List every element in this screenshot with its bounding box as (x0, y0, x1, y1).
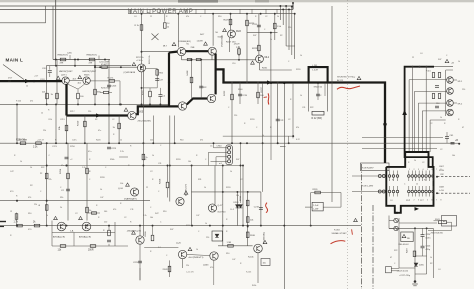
wire fan drop 3 (414, 91, 416, 152)
wire q204 emitter down (141, 72, 143, 105)
svg-text:R 220: R 220 (16, 101, 21, 103)
wire x247.7 down (247, 192, 249, 246)
svg-text:C47: C47 (196, 215, 199, 217)
transistor Q229 (136, 236, 144, 244)
resistor R201 (60, 58, 66, 61)
dash-dot boundary x373 (372, 205, 374, 289)
svg-text:C2: C2 (124, 217, 126, 219)
svg-text:220: 220 (234, 115, 237, 117)
wire x232 down (231, 82, 233, 143)
svg-text:1k: 1k (204, 187, 206, 189)
svg-text:W02X: W02X (84, 74, 90, 76)
P-08 label box (361, 163, 390, 171)
svg-text:C4: C4 (420, 53, 422, 55)
A marker q201 (56, 76, 60, 79)
svg-text:47k: 47k (296, 127, 299, 129)
svg-text:+R229: +R229 (234, 44, 241, 46)
resistor R239 (315, 191, 321, 194)
transistor Q213 (208, 47, 216, 55)
svg-text:m1: m1 (219, 163, 222, 165)
dotted boundary x347.4 (346, 0, 348, 289)
emitter resistor RE1 (187, 59, 192, 61)
wire y207.1 into cap box (305, 206, 312, 208)
svg-text:R-CH: R-CH (439, 170, 445, 172)
A marker q225 (54, 216, 58, 219)
crossover X mark (152, 34, 159, 41)
svg-text:2SA992(A/Y): 2SA992(A/Y) (124, 198, 137, 201)
transistor Q203 (83, 77, 90, 84)
resistor R252 (36, 142, 42, 145)
svg-text:47k: 47k (30, 101, 33, 103)
svg-text:Q-17: Q-17 (218, 205, 224, 207)
wire fan x286.1 (285, 6, 287, 46)
resistor R211 top (140, 25, 143, 31)
svg-text:2k: 2k (60, 207, 62, 209)
wire x243 down (242, 166, 244, 226)
wire x422.5 to x426.6 (422, 252, 424, 256)
svg-text:47k: 47k (49, 179, 52, 181)
wire x341 link (340, 193, 342, 208)
transistor Q227 (82, 222, 91, 231)
red mark service note A (267, 93, 270, 104)
svg-text:22: 22 (150, 16, 152, 18)
svg-text:R215 8.2k: R215 8.2k (101, 87, 110, 89)
svg-text:R47: R47 (236, 159, 239, 161)
svg-text:R220: R220 (250, 119, 255, 121)
dashed wire R out (437, 176, 470, 178)
svg-text:C211: C211 (252, 24, 258, 26)
svg-text:220: 220 (88, 111, 91, 113)
red underline signal gnd (331, 241, 346, 244)
bus loop bottom right (386, 267, 392, 273)
wire relay feeds (388, 216, 390, 229)
svg-text:1k: 1k (100, 189, 102, 191)
wire q204 base feed (95, 66, 138, 68)
svg-text:HM22K(T): HM22K(T) (87, 55, 97, 57)
svg-text:47: 47 (390, 257, 392, 259)
svg-text:#R243 22: #R243 22 (314, 86, 324, 88)
A marker gnd note (354, 218, 358, 221)
svg-text:4707: 4707 (8, 78, 12, 80)
transistor Q223 mid (208, 204, 216, 212)
nodes y65.7 (55, 65, 57, 67)
wire x262.6 down (262, 83, 264, 192)
wire to box (434, 220, 442, 222)
resistor R222 loop (190, 77, 193, 83)
svg-text:10k: 10k (120, 183, 123, 185)
wire rail y137 right seg (362, 136, 443, 138)
resistor R266 (90, 245, 96, 248)
wire long vertical A (52, 6, 54, 60)
svg-text:HM22K(T): HM22K(T) (58, 55, 68, 57)
svg-text:2SA992(A/2): 2SA992(A/2) (221, 35, 224, 47)
svg-text:C31: C31 (302, 107, 305, 109)
wire rail y136 seg (223, 135, 293, 137)
wire x399-415 bottom link (399, 267, 415, 269)
transistor Q211 driver (207, 94, 215, 102)
capacitor C217 (276, 119, 280, 121)
svg-text:22k: 22k (186, 265, 189, 267)
svg-text:R-10k: R-10k (248, 257, 255, 259)
svg-text:2SC2240(B1): 2SC2240(B1) (264, 232, 266, 244)
wire q231 emitter (182, 259, 184, 268)
zener D205 (414, 263, 418, 266)
svg-text:R236: R236 (240, 195, 242, 201)
connector P-08 outline thick (386, 152, 433, 213)
transistor Q205 (128, 111, 136, 119)
wire fan x280.4 (279, 6, 281, 20)
wire q231-q233 (187, 255, 210, 256)
svg-text:10k: 10k (150, 217, 153, 219)
svg-text:47: 47 (462, 127, 464, 129)
stub resistor x16.5 (16, 213, 18, 226)
svg-text:200R: 200R (88, 250, 94, 252)
resistor R212 (65, 125, 68, 131)
wire x229.6 lower (229, 38, 231, 52)
capacitor C61 (445, 137, 449, 139)
svg-text:C219: C219 (254, 207, 260, 209)
svg-text:C223: C223 (111, 148, 117, 150)
svg-text:MAIN L POWER AMP: MAIN L POWER AMP (128, 9, 194, 15)
wire fan x283.2 (282, 9, 284, 25)
svg-text:R56k: R56k (110, 159, 114, 161)
wire x213.5 drop (213, 143, 215, 148)
svg-text:ML2: ML2 (265, 57, 270, 59)
svg-text:REL-M-GU: REL-M-GU (399, 244, 409, 246)
diode in box (215, 234, 219, 237)
pin row 1 (388, 175, 391, 178)
wire sp stubs (453, 79, 457, 81)
driver loop vertical 2 (200, 60, 202, 99)
svg-text:R219 10k: R219 10k (149, 55, 151, 64)
svg-text:Q-16: Q-16 (118, 188, 124, 190)
resistor R208 tail (77, 93, 80, 99)
svg-text:1.4498: 1.4498 (197, 41, 204, 43)
svg-text:R1k: R1k (49, 119, 52, 121)
svg-text:1k: 1k (416, 184, 418, 186)
output transistor Q239 (447, 88, 454, 95)
svg-text:1k: 1k (277, 16, 279, 18)
svg-text:R160: R160 (238, 89, 243, 91)
svg-text:C217: C217 (280, 120, 286, 122)
svg-text:220: 220 (288, 27, 291, 29)
A marker q205 (124, 108, 128, 111)
emitter join Y (68, 84, 79, 89)
svg-text:47R: 47R (60, 63, 64, 65)
wire leader from MAIN L label (3, 65, 24, 80)
wire x164.8 stub (164, 14, 166, 22)
svg-text:C203: C203 (111, 86, 117, 88)
wire base link to ML2 (216, 59, 256, 61)
svg-text:R22: R22 (394, 250, 397, 252)
wire x274.8 (274, 14, 276, 40)
wire q235 base (248, 246, 254, 248)
svg-text:C4: C4 (390, 200, 392, 202)
resistor R223 (246, 20, 249, 26)
svg-text:P-LE2: P-LE2 (334, 230, 341, 232)
capacitor C235 cluster (435, 106, 439, 108)
resistor R238 (246, 217, 249, 223)
relay plug contact 2 (394, 226, 398, 230)
svg-text:1k: 1k (120, 140, 122, 142)
wire rail y165.5 (0, 165, 243, 167)
wire x87 down (86, 143, 88, 220)
wire b+ rail thin ext (434, 66, 453, 68)
stub c205 (69, 55, 71, 60)
svg-text:R-106: R-106 (246, 272, 251, 274)
wire vertical x66.5 lower (66, 116, 68, 144)
wire fan drop 1 (408, 80, 410, 152)
svg-text:+ROUT-W-GU: +ROUT-W-GU (430, 232, 443, 234)
svg-text:10k: 10k (263, 263, 266, 265)
svg-text:R254: R254 (60, 168, 62, 174)
svg-text:052 R04: 052 R04 (218, 212, 227, 214)
wire x143.4 down (142, 66, 144, 236)
wire q204 collector up (141, 14, 143, 64)
svg-text:A950A(Q-/E): A950A(Q-/E) (79, 236, 91, 239)
wire x178.3 drop to Q207 (177, 14, 179, 48)
capacitor C230 col (65, 157, 69, 159)
capacitor C221 box (312, 202, 323, 211)
svg-text:1k: 1k (414, 160, 416, 162)
wire thick Q205 to Q209 riser (136, 106, 178, 114)
arrow on block bottom (415, 207, 420, 211)
wire vertical x57 (56, 60, 58, 105)
resistor R206 (46, 93, 49, 99)
wire x110 bottom hook (108, 143, 110, 150)
svg-text:R 4.7k: R 4.7k (108, 77, 114, 79)
resistor R205 (56, 93, 59, 99)
svg-text:2.2k: 2.2k (120, 151, 124, 153)
resistor R240 (246, 232, 249, 238)
capacitor C209 loop (155, 79, 159, 81)
svg-text:1k: 1k (270, 39, 272, 41)
relay plug contact 1 (394, 218, 398, 222)
svg-text:22: 22 (146, 187, 148, 189)
capacitor C208 (158, 95, 162, 97)
A marker q219 (126, 183, 130, 186)
transistor Q235 (254, 244, 263, 253)
wire thick staircase to output line (216, 69, 385, 163)
A marker q204 (132, 62, 136, 65)
wire thick B+ feed from P-08 (405, 67, 434, 167)
wire x46.7 x17 joints (16, 103, 18, 105)
A marker q217 (251, 61, 255, 64)
svg-text:R217: R217 (70, 111, 75, 113)
wire input top rail (53, 59, 110, 61)
svg-text:22: 22 (412, 57, 414, 59)
wire q233 down (213, 260, 215, 285)
svg-text:47u: 47u (88, 151, 91, 153)
wire thick input path MAIN L (0, 80, 62, 82)
wire cn10 leads (214, 147, 228, 149)
wire x229.6 upper (230, 14, 232, 30)
wire x120 down (119, 81, 121, 105)
svg-text:L-DW: L-DW (313, 209, 318, 211)
output transistor Q243 (447, 109, 454, 116)
wire x46.7 down (46, 143, 48, 225)
resistor R269 col (108, 230, 111, 236)
resistor R215 (149, 91, 152, 97)
wire pair emitter drop (73, 233, 75, 247)
label +B top (445, 59, 449, 62)
resistor R233t (274, 23, 277, 29)
capacitor C223 mid (107, 147, 111, 149)
wire x174.7 (174, 116, 176, 144)
svg-text:R10: R10 (436, 103, 439, 105)
wire x277.7 down (277, 82, 279, 143)
svg-text:SIGNAL GT NET: SIGNAL GT NET (332, 232, 348, 235)
capacitor C212 loop (199, 86, 203, 88)
wire q203 base right (90, 80, 120, 82)
svg-text:0.22: 0.22 (296, 139, 300, 141)
svg-text:R225: R225 (224, 20, 230, 22)
svg-text:1k: 1k (430, 257, 432, 259)
wire y228.3 (389, 227, 433, 229)
wire emitter loop (142, 87, 158, 89)
svg-text:C47u: C47u (72, 140, 77, 142)
svg-text:22: 22 (420, 200, 422, 202)
svg-text:HM22K(T)/FET: HM22K(T)/FET (83, 71, 97, 73)
svg-text:1k50B: 1k50B (187, 70, 189, 76)
wire x325 stub (324, 83, 326, 96)
svg-text:R240: R240 (250, 235, 256, 237)
A marker q215 (223, 28, 227, 31)
svg-text:R10: R10 (226, 253, 229, 255)
svg-text:40.3: 40.3 (73, 79, 77, 81)
wire thick bottom exit (395, 212, 398, 214)
transistor Q219 mid (131, 188, 139, 196)
svg-text:1k: 1k (262, 135, 264, 137)
resistor R255 col (45, 173, 48, 179)
wire cluster links (440, 136, 447, 138)
wire x270.9 (270, 33, 272, 83)
svg-text:P-08 L-DRV: P-08 L-DRV (362, 186, 374, 188)
emitter resistor R247b (432, 94, 434, 99)
wire y223 to R241 (399, 222, 437, 224)
dash-dot boundary x361.5 (361, 164, 363, 289)
output transistor Q241 (447, 100, 454, 107)
wire q229 links (139, 226, 141, 236)
capacitor C218 (316, 94, 320, 96)
transistor Q233 (210, 252, 218, 260)
wire x332 long (331, 6, 333, 202)
svg-text:10k: 10k (188, 161, 191, 163)
svg-text:R239: R239 (313, 189, 319, 191)
resistor R268 (151, 235, 154, 241)
svg-text:1.5uH: 1.5uH (312, 69, 318, 71)
svg-text:R10: R10 (180, 140, 183, 142)
A marker note (357, 76, 361, 79)
transistor Q231 (178, 250, 186, 258)
resistor C213 stub (164, 23, 167, 29)
wire vertical x56 lower (55, 104, 57, 143)
svg-text:R-1k: R-1k (252, 285, 256, 287)
svg-text:1 2 3 4 5 6 7 8: 1 2 3 4 5 6 7 8 (409, 169, 443, 171)
node +B stub (452, 142, 459, 144)
svg-text:2.2k: 2.2k (82, 167, 86, 169)
svg-text:R10: R10 (406, 200, 409, 202)
nodes on rail y225.6 (247, 225, 249, 227)
wire top rail 2 (0, 8, 293, 10)
wire vertical x84.9 (84, 116, 86, 144)
svg-text:C4: C4 (134, 16, 136, 18)
capacitor C225m (66, 189, 70, 191)
svg-text:C215: C215 (242, 95, 248, 97)
small box right (442, 216, 457, 227)
svg-text:Q205: Q205 (138, 111, 144, 113)
wire fan drop 7 (429, 120, 431, 152)
wire x433.3 down (432, 228, 434, 278)
node input rail junctions (55, 59, 57, 61)
wire top-left box right edge (45, 6, 47, 23)
wire x247 from rail (246, 14, 248, 83)
pin row 2 (388, 190, 391, 193)
svg-text:220: 220 (462, 89, 465, 91)
svg-text:R233: R233 (224, 90, 226, 96)
svg-text:C203: C203 (40, 79, 45, 81)
svg-text:R219: R219 (78, 120, 80, 126)
transistor Q207 (177, 48, 185, 56)
diode D203 (239, 205, 243, 208)
svg-text:SHUNTED WT M(-): SHUNTED WT M(-) (337, 77, 356, 79)
resistor R219 (84, 121, 87, 127)
wire x68 down (67, 143, 69, 220)
wire fan x289 (288, 9, 290, 50)
resistor C211 base (102, 66, 108, 69)
wire stub y146 (280, 145, 286, 147)
wire x260.9 segment (260, 192, 262, 226)
wire rail y148.6 seg (362, 148, 437, 150)
svg-text:1k: 1k (440, 117, 442, 119)
resistor R229 lower (258, 45, 261, 51)
svg-text:R258: R258 (160, 178, 162, 184)
wire thick top corner to Q207 (169, 50, 177, 53)
emitter resistor R246 (438, 73, 440, 78)
svg-text:C10: C10 (232, 63, 235, 65)
resistor R247 (413, 251, 416, 256)
A marker q231 (188, 247, 192, 250)
svg-text:1k: 1k (152, 155, 154, 157)
svg-text:2.2k: 2.2k (236, 47, 240, 49)
svg-text:R220: R220 (226, 187, 231, 189)
wire fan x291.8 (291, 6, 293, 55)
node y225 (46, 225, 48, 227)
resistor R221 (118, 123, 121, 129)
A marker q221 (184, 191, 188, 194)
svg-text:1.2uF: 1.2uF (313, 205, 319, 207)
wire cluster horizontal y32.6 (247, 32, 278, 34)
svg-text:R10: R10 (218, 16, 221, 18)
svg-text:C2: C2 (430, 123, 432, 125)
resistor R203 (89, 58, 95, 61)
connector CN10 outline (226, 145, 232, 165)
svg-text:1k: 1k (30, 167, 32, 169)
red squiggle speaker line (337, 86, 360, 89)
node q204 collector (141, 51, 143, 53)
svg-text:R220: R220 (186, 225, 191, 227)
resistor R214 loop (156, 70, 159, 76)
stub c206 (98, 56, 100, 60)
connector CN10 pins (228, 146, 231, 149)
svg-text:2SC2240(GR): 2SC2240(GR) (138, 121, 151, 123)
wire bias bottom y246 (52, 245, 128, 247)
svg-text:C2: C2 (440, 149, 442, 151)
svg-text:Q233: Q233 (203, 265, 209, 267)
svg-text:22k: 22k (43, 130, 46, 132)
svg-text:L-CH: L-CH (439, 190, 444, 192)
resistor R257 col (86, 168, 89, 174)
